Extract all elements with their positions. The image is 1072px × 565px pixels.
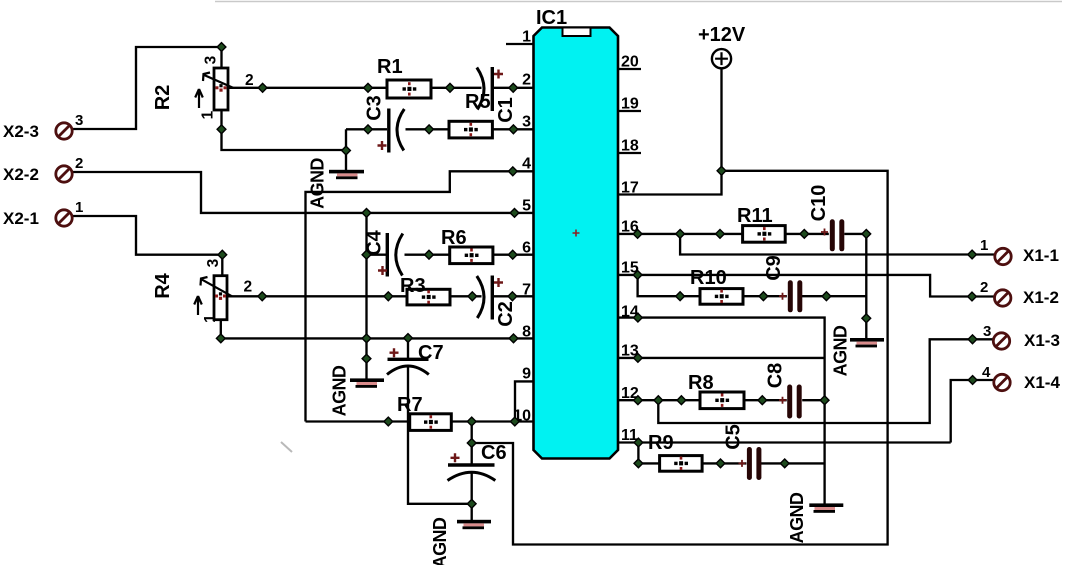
connector X1-1: [980, 237, 1059, 265]
junction pin16 at IC: [633, 230, 642, 239]
wire R10 C9 row: [638, 275, 867, 296]
wire C7 vertical and drop to C6 bottom: [408, 338, 472, 504]
junction pin2 at IC: [509, 83, 518, 92]
svg-text:C3: C3: [364, 95, 386, 121]
IC origin cross: [573, 230, 580, 237]
wire pin 20 stub: [618, 68, 641, 70]
capacitor C2: [477, 276, 517, 327]
svg-text:IC1: IC1: [536, 7, 567, 29]
connector X1-4: [982, 364, 1060, 392]
wire pot R2 pin1 to AGND node: [222, 110, 347, 150]
capacitor C6: [448, 442, 507, 481]
junction C6 top: [467, 439, 476, 448]
svg-text:R6: R6: [441, 227, 467, 249]
junction pin16 before R11: [716, 230, 725, 239]
svg-text:C8: C8: [765, 363, 787, 389]
junction pin10 left of R7: [384, 417, 393, 426]
resistor R1: [377, 56, 431, 98]
potentiometer R2: [152, 55, 254, 119]
wire +12V rail right, down, bottom, up to C6 top: [472, 171, 888, 545]
wire pin 19 stub: [618, 110, 641, 112]
svg-text:3: 3: [205, 258, 222, 267]
wire ground node to C4 to R6 to pin 6: [367, 254, 534, 256]
junction pin7 row grid: [384, 292, 393, 301]
resistor R7: [397, 394, 451, 430]
resistor R9: [648, 432, 702, 471]
svg-text:3: 3: [522, 114, 531, 131]
capacitor C3: [364, 95, 405, 152]
svg-text:9: 9: [522, 366, 531, 383]
IC1 body: [534, 7, 619, 459]
junction pin8 at IC: [509, 334, 518, 343]
svg-text:+12V: +12V: [698, 24, 746, 46]
junction pin8 gnd vertical: [362, 334, 371, 343]
svg-text:R7: R7: [397, 394, 423, 416]
svg-text:2: 2: [522, 72, 531, 89]
junction at X1-1: [968, 250, 977, 259]
resistor R5: [449, 91, 492, 138]
junction pin8 at C7: [404, 334, 413, 343]
svg-text:18: 18: [621, 138, 639, 155]
junction R10 row left: [676, 292, 685, 301]
junction dots (diamonds): [216, 43, 977, 509]
junction at AGND C3 drop: [342, 146, 351, 155]
svg-text:7: 7: [522, 282, 531, 299]
wire pin 15 to X1-2: [618, 275, 995, 297]
junction R9 row left: [634, 459, 643, 468]
resistor R6: [441, 227, 493, 264]
junction pin10 at C6: [467, 417, 476, 426]
junction pin10 at IC: [510, 417, 519, 426]
wire pin 10 row through R7: [306, 420, 534, 422]
wire pot R2 wiper to R1 to C1 to pin 2: [228, 87, 534, 89]
junction R9 row after R9: [716, 459, 725, 468]
svg-text:R2: R2: [152, 85, 174, 111]
wire X2-1 to pot R4 top: [72, 216, 223, 276]
wire ground vertical pin5 to AGND bar: [365, 213, 367, 379]
junction pin2 row grid: [364, 83, 373, 92]
junction pin7 row wiper: [258, 292, 267, 301]
junction at X1-3: [968, 335, 977, 344]
junction pin2 row after R1: [446, 83, 455, 92]
svg-text:AGND: AGND: [430, 517, 450, 565]
svg-text:R1: R1: [377, 56, 403, 78]
ground AGND at C6: [430, 517, 491, 565]
junction pin3 row after C3: [425, 125, 434, 134]
svg-text:R3: R3: [400, 275, 426, 297]
junction at pot R2 pin3: [217, 43, 226, 52]
svg-text:R4: R4: [152, 272, 174, 298]
faint smudge: [281, 442, 292, 452]
svg-text:3: 3: [203, 55, 220, 64]
capacitor C1: [477, 67, 517, 123]
wire R9 C5 row: [638, 443, 824, 464]
connector X2-2: [3, 155, 83, 184]
+12V supply symbol: [698, 24, 746, 68]
svg-text:X2-3: X2-3: [3, 122, 39, 141]
ground AGND at C8/C5: [787, 492, 843, 543]
svg-text:5: 5: [522, 198, 531, 215]
svg-text:R8: R8: [688, 372, 714, 394]
svg-text:2: 2: [244, 279, 253, 296]
ground AGND near C3: [308, 158, 365, 209]
junction pin6 after C4: [425, 250, 434, 259]
capacitor C9: [763, 255, 802, 312]
wire pot R4 wiper to R3 to C2 to pin 7: [228, 295, 534, 297]
wire C10 right down to AGND: [865, 234, 867, 338]
svg-text:AGND: AGND: [831, 325, 851, 376]
junction pin3 at IC: [509, 125, 518, 134]
capacitor C10: [808, 185, 844, 252]
junction pin16 drop to X1-1: [676, 230, 685, 239]
svg-text:X1-2: X1-2: [1023, 288, 1059, 307]
junction pin14 at IC: [634, 313, 643, 322]
svg-text:1: 1: [522, 29, 531, 46]
wire node C3 to R5 to pin 3: [346, 128, 534, 130]
capacitor C7: [387, 342, 444, 375]
junction pin13 at IC: [634, 354, 643, 363]
wire X2-2 to pin 5: [72, 172, 534, 213]
svg-text:R11: R11: [737, 205, 773, 227]
svg-text:1: 1: [980, 237, 988, 254]
wire pin 12 row through R8 C8: [618, 399, 825, 401]
faint top border artifact: [215, 1, 1062, 3]
junction pin16 after R11: [800, 230, 809, 239]
junction pin11 at IC: [634, 438, 643, 447]
wire pin 11 to X1-4: [618, 380, 995, 443]
svg-text:1: 1: [200, 110, 217, 119]
wire pot R4 pin1 to pin 8: [221, 320, 534, 339]
wire pin12 net to X1-3: [658, 339, 994, 423]
resistor R10: [690, 267, 743, 304]
junction at X1-2: [968, 292, 977, 301]
svg-text:X1-4: X1-4: [1024, 373, 1060, 392]
svg-text:4: 4: [522, 156, 531, 173]
junction +12V rail: [717, 166, 726, 175]
junction pot R4 pin3: [218, 250, 227, 259]
junction C5 right: [780, 459, 789, 468]
junction pin7 at IC: [508, 292, 517, 301]
resistor R3: [400, 275, 450, 305]
svg-text:3: 3: [75, 112, 83, 129]
wire pin 17 and +12V riser: [618, 68, 722, 194]
connector X1-2: [980, 279, 1059, 307]
junction pin12 before R8: [677, 396, 686, 405]
junction pin5 at IC: [510, 209, 519, 218]
resistor R11: [737, 205, 785, 242]
junction pin2 row wiper: [258, 83, 267, 92]
wire pin 1 stub: [506, 43, 534, 45]
junction C9 right: [822, 292, 831, 301]
junction gnd vertical mid: [362, 354, 371, 363]
junction pin12 after R8: [758, 396, 767, 405]
svg-text:X1-3: X1-3: [1024, 331, 1060, 350]
junction AGND C9 C10: [862, 314, 871, 323]
svg-text:X2-1: X2-1: [3, 209, 39, 228]
svg-text:1: 1: [75, 199, 83, 216]
capacitor C4: [364, 229, 403, 276]
svg-text:20: 20: [621, 54, 639, 71]
connector X1-3: [983, 323, 1060, 350]
wire C6 vertical: [471, 422, 473, 521]
svg-text:AGND: AGND: [787, 492, 807, 543]
svg-text:C9: C9: [763, 255, 785, 281]
svg-text:C5: C5: [723, 424, 745, 450]
svg-text:4: 4: [982, 364, 991, 381]
wire pin 18 stub: [618, 152, 641, 154]
svg-text:C6: C6: [481, 442, 507, 464]
junction C10 right: [862, 230, 871, 239]
svg-text:2: 2: [75, 155, 83, 172]
capacitor C5: [723, 424, 762, 480]
junction R10 row after R10: [759, 292, 768, 301]
wire pin 4 jog down-left to long vertical: [306, 171, 534, 421]
junction at X1-4: [968, 376, 977, 385]
junction at pot R2 pin1: [217, 125, 226, 134]
svg-text:C7: C7: [418, 342, 444, 364]
junction pin4 at IC: [508, 167, 517, 176]
wire pin 13 right: [618, 357, 825, 359]
potentiometer R4: [152, 258, 252, 323]
junction pin6 gnd vertical: [362, 250, 371, 259]
svg-text:C1: C1: [495, 97, 517, 123]
wire C3 left plate down to AGND: [345, 129, 347, 170]
junction C6 bottom: [467, 499, 476, 508]
svg-text:8: 8: [522, 324, 531, 341]
resistor R8: [688, 372, 744, 409]
wire pin 16 row through R11 and C10: [618, 233, 866, 235]
svg-text:2: 2: [980, 279, 988, 296]
svg-text:AGND: AGND: [308, 158, 328, 209]
junction pin12 at IC: [634, 396, 643, 405]
junction pin5 gnd tee: [362, 209, 371, 218]
ground AGND at C9/C10: [831, 325, 885, 376]
junction pin12 drop to X1-3: [654, 396, 663, 405]
svg-text:17: 17: [621, 180, 639, 197]
junction pot R4 pin1: [216, 334, 225, 343]
svg-text:2: 2: [245, 72, 254, 89]
svg-text:R10: R10: [690, 267, 727, 289]
wire pin 14 right and down to AGND at C8: [618, 318, 825, 504]
svg-text:C2: C2: [495, 301, 517, 327]
junction pin3 row grid: [364, 125, 373, 134]
wire X2-3 to pot R2 top: [72, 47, 222, 129]
wire drop to X1-1 line: [680, 234, 995, 255]
svg-text:3: 3: [983, 323, 991, 340]
svg-text:19: 19: [621, 96, 639, 113]
svg-text:C10: C10: [808, 185, 830, 222]
ground AGND below pot R4 / pin 8: [330, 365, 385, 416]
svg-text:X1-1: X1-1: [1023, 246, 1059, 265]
svg-text:X2-2: X2-2: [3, 165, 39, 184]
connector X2-1: [3, 199, 83, 228]
svg-text:R9: R9: [648, 432, 674, 454]
svg-text:1: 1: [202, 314, 219, 323]
junction pin6 at IC: [508, 250, 517, 259]
wire pin 9 down to pin 10 row: [515, 381, 534, 421]
junction pin7 after R3: [468, 292, 477, 301]
capacitor C8: [765, 363, 802, 419]
junction pin15 at IC: [633, 271, 642, 280]
svg-text:6: 6: [522, 240, 531, 257]
junction C8 right: [820, 396, 829, 405]
connector X2-3: [3, 112, 83, 141]
svg-text:AGND: AGND: [330, 365, 350, 416]
